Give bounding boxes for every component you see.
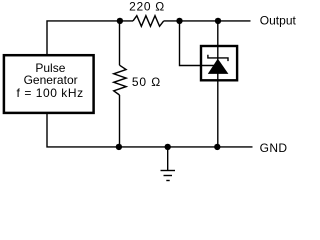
svg-text:50 Ω: 50 Ω: [132, 75, 161, 89]
svg-text:220 Ω: 220 Ω: [129, 0, 165, 13]
svg-text:Output: Output: [260, 14, 296, 28]
svg-text:f = 100 kHz: f = 100 kHz: [17, 86, 84, 100]
svg-text:GND: GND: [260, 141, 288, 155]
